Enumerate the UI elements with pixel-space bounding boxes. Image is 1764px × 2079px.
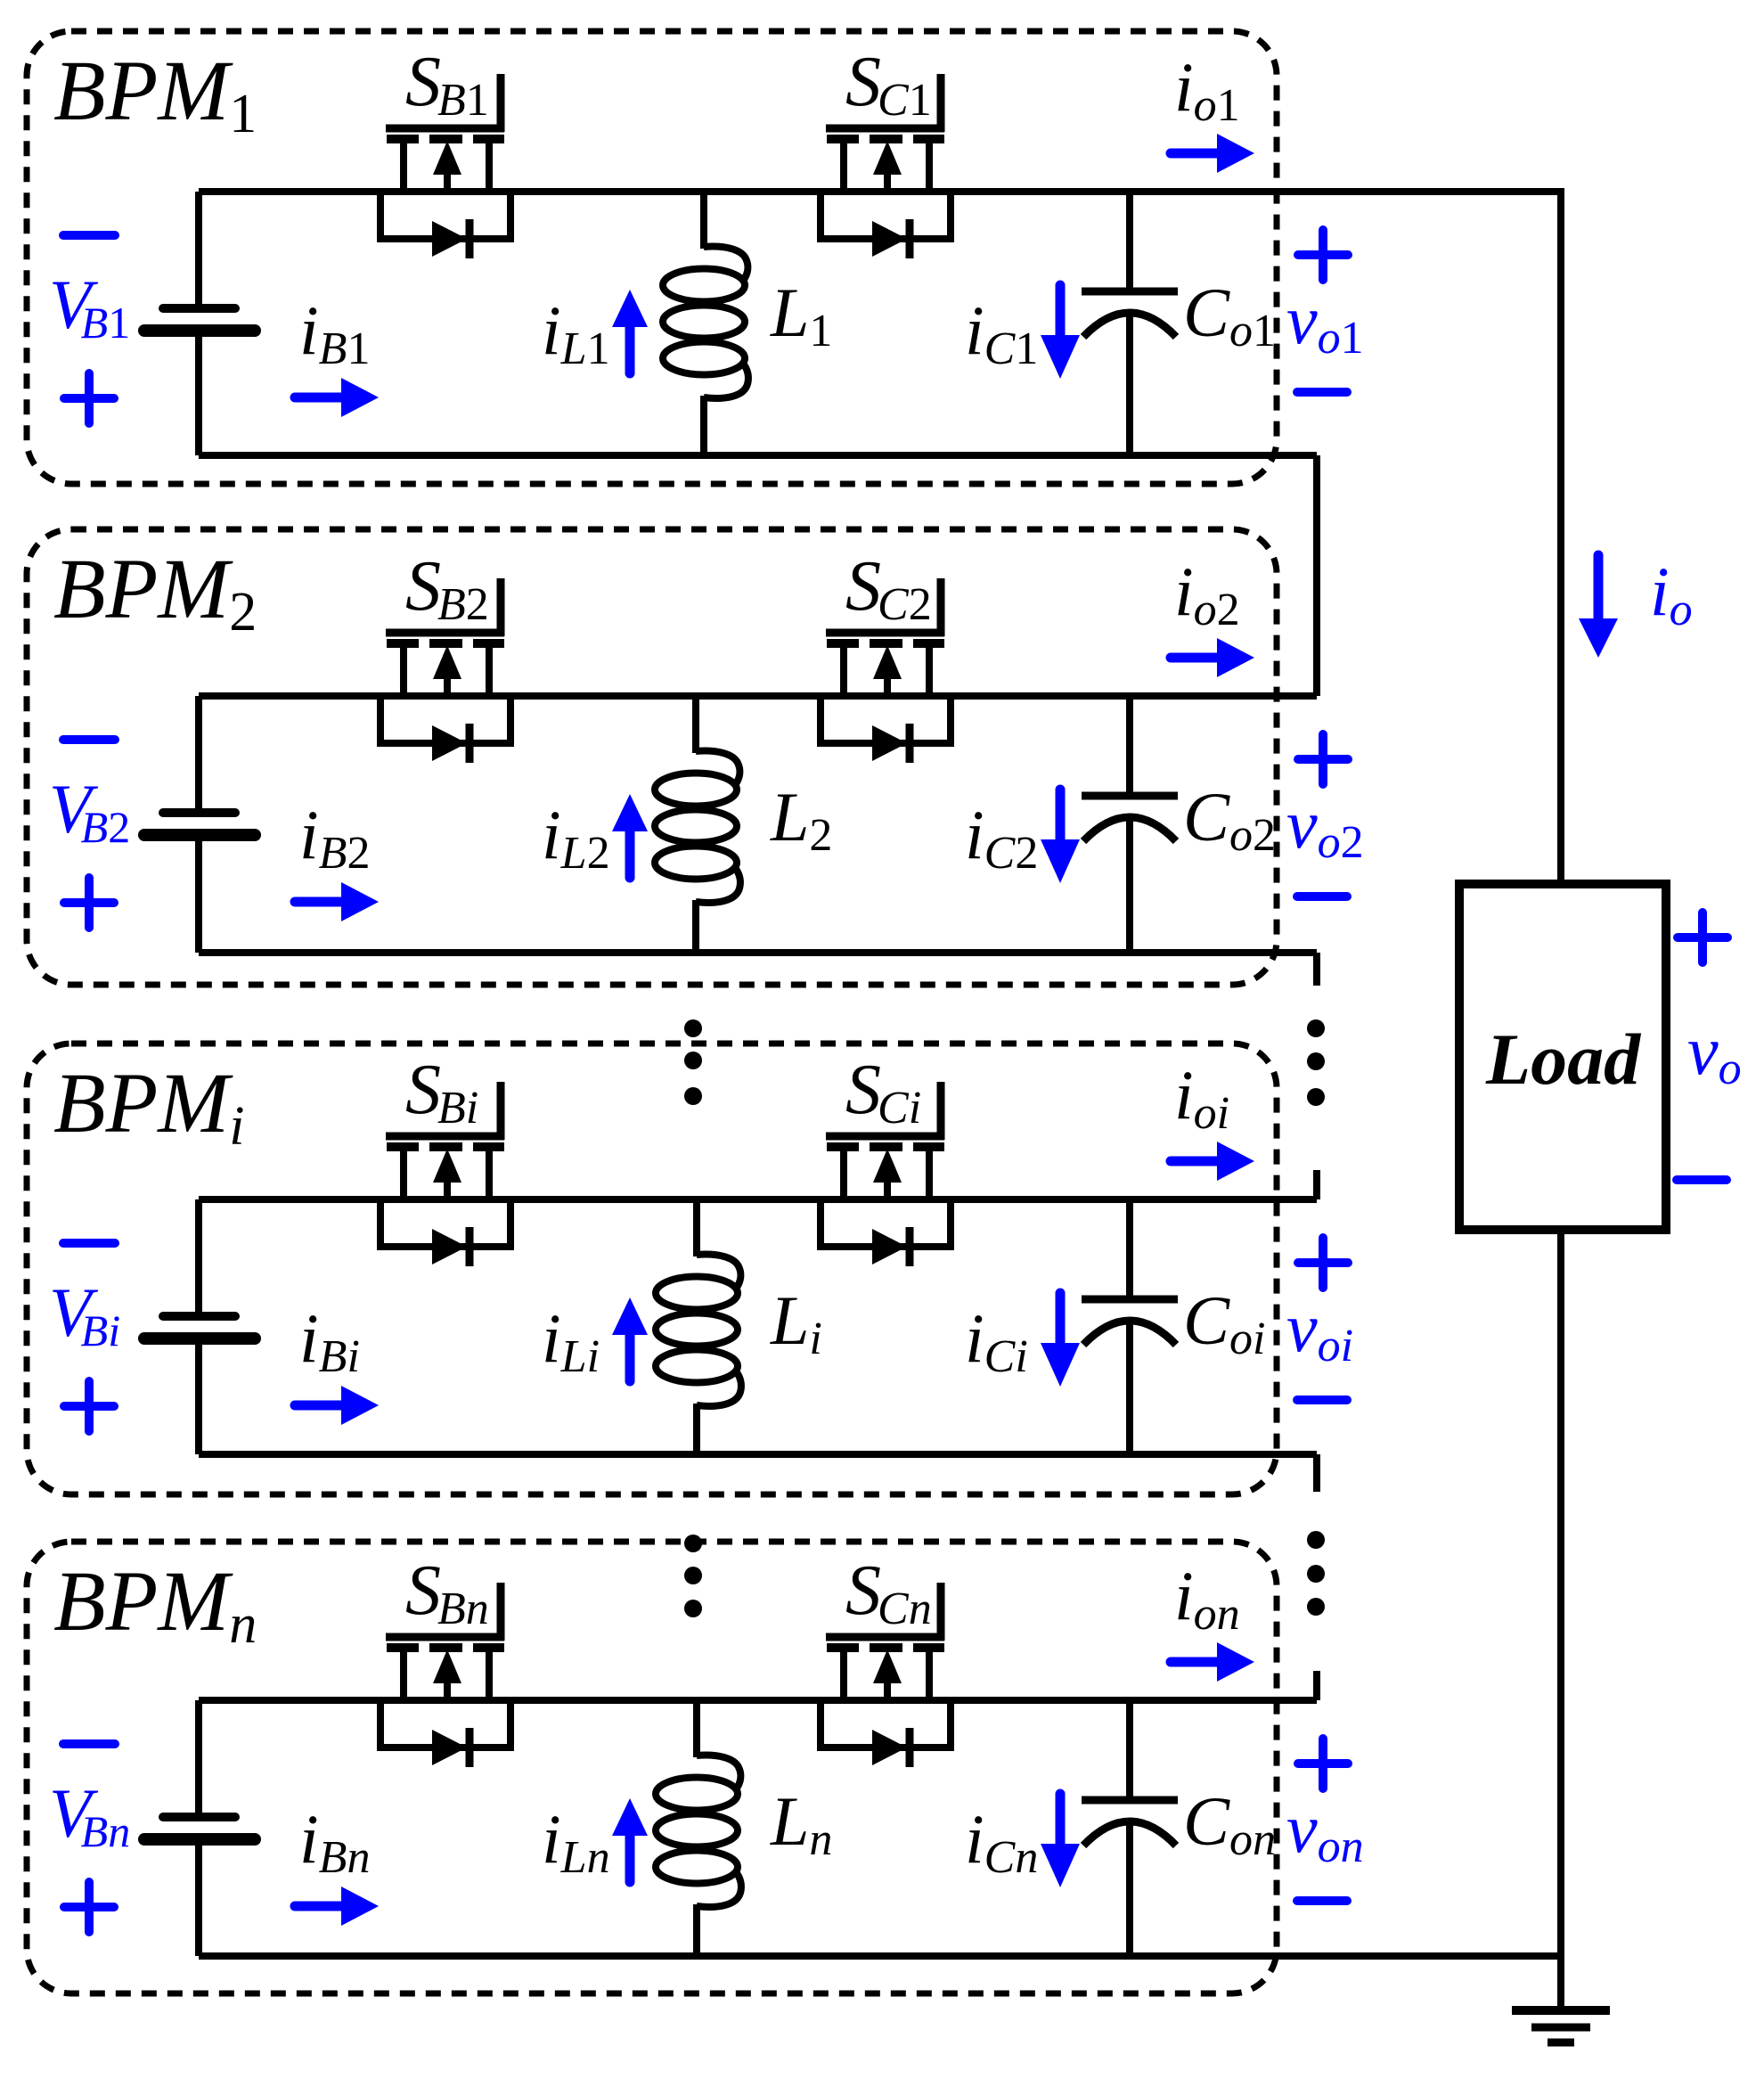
- wire: series link BPM1 bottom to BPM2 output: [1313, 455, 1320, 696]
- battery VB1: [144, 192, 255, 455]
- battery minus sign: [63, 1739, 115, 1748]
- arrow iL1 (blue, up): [612, 290, 648, 373]
- output plus sign: [1298, 1739, 1348, 1788]
- battery plus sign: [64, 878, 114, 928]
- wire: BPM2 top rail: [199, 692, 1317, 700]
- transistor SBi (MOSFET with body diode): [380, 1082, 510, 1266]
- arrow iLn (blue, up): [612, 1798, 648, 1882]
- battery minus sign: [63, 735, 115, 744]
- capacitor Con: [1082, 1700, 1178, 1956]
- arrow io1 (blue, right): [1171, 134, 1254, 173]
- arrow iBn (blue, right): [295, 1887, 379, 1926]
- capacitor Coi: [1082, 1199, 1178, 1454]
- output minus sign: [1297, 1896, 1347, 1905]
- wire: BPMn top rail: [199, 1697, 1317, 1704]
- arrow iBi (blue, right): [295, 1386, 379, 1425]
- transistor SCn (MOSFET with body diode): [821, 1583, 951, 1767]
- battery VBn: [144, 1700, 255, 1956]
- battery plus sign: [64, 1381, 114, 1431]
- transistor SB2 (MOSFET with body diode): [380, 578, 510, 763]
- inductor L1: [663, 192, 748, 455]
- output minus sign: [1297, 1396, 1347, 1404]
- wire: BPMn bottom rail: [199, 1952, 1561, 1960]
- output minus sign: [1297, 388, 1347, 397]
- battery VBi: [144, 1199, 255, 1454]
- output plus sign: [1298, 734, 1348, 784]
- wire: BPMi bottom stub down: [1313, 1454, 1320, 1492]
- wire: BPMi output stub up: [1313, 1170, 1320, 1199]
- battery plus sign: [64, 373, 114, 423]
- transistor SB1 (MOSFET with body diode): [380, 74, 510, 258]
- wire: BPM2 bottom rail: [199, 949, 1317, 956]
- transistor SCi (MOSFET with body diode): [821, 1082, 951, 1266]
- arrow iCn (blue, down): [1041, 1794, 1080, 1887]
- battery minus sign: [63, 231, 115, 240]
- module box BPM2: [27, 529, 1277, 985]
- arrow iLi (blue, up): [612, 1297, 648, 1381]
- inductor Ln: [656, 1700, 741, 1956]
- arrow iB2 (blue, right): [295, 882, 379, 921]
- arrow iL2 (blue, up): [612, 794, 648, 878]
- ellipsis dots center column (between BPM2 and BPMi): [684, 1019, 702, 1105]
- ground symbol: [1512, 2010, 1610, 2042]
- svg-text:BPM2: BPM2: [53, 541, 257, 643]
- load plus sign (blue): [1678, 913, 1727, 962]
- output plus sign: [1298, 1238, 1348, 1288]
- wire: output bus top (BPM1 output to load): [1557, 188, 1564, 884]
- arrow ioi (blue, right): [1171, 1142, 1254, 1181]
- load box: [1459, 884, 1666, 1230]
- battery plus sign: [64, 1882, 114, 1932]
- wire: BPMi bottom rail: [199, 1451, 1317, 1458]
- ellipsis dots right column (between BPM2 and BPMi): [1307, 1019, 1325, 1106]
- capacitor Co1: [1082, 192, 1178, 455]
- svg-text:BPMn: BPMn: [53, 1553, 257, 1655]
- battery VB2: [144, 696, 255, 953]
- capacitor Co2: [1082, 696, 1178, 953]
- ellipsis dots center column (between BPMi and BPMn): [684, 1535, 702, 1617]
- transistor SC2 (MOSFET with body diode): [821, 578, 951, 763]
- load minus sign (blue): [1677, 1175, 1727, 1184]
- wire: load bottom to ground: [1557, 1230, 1564, 2010]
- arrow iCi (blue, down): [1041, 1293, 1080, 1387]
- output minus sign: [1297, 892, 1347, 901]
- module box BPM1: [27, 31, 1277, 484]
- arrow io (blue, down): [1579, 555, 1618, 658]
- arrow io2 (blue, right): [1171, 638, 1254, 677]
- module box BPMi: [27, 1044, 1277, 1494]
- arrow iC1 (blue, down): [1041, 285, 1080, 379]
- svg-text:Load: Load: [1485, 1019, 1641, 1100]
- ellipsis dots right column (between BPMi and BPMn): [1307, 1531, 1325, 1616]
- transistor SBn (MOSFET with body diode): [380, 1583, 510, 1767]
- wire: BPM1 bottom rail: [199, 452, 1317, 459]
- svg-text:BPM1: BPM1: [53, 43, 257, 144]
- wire: BPM2 bottom stub down: [1313, 953, 1320, 986]
- output plus sign: [1298, 230, 1348, 280]
- arrow iC2 (blue, down): [1041, 790, 1080, 883]
- svg-text:BPMi: BPMi: [53, 1055, 244, 1157]
- arrow ion (blue, right): [1171, 1642, 1254, 1682]
- battery minus sign: [63, 1239, 115, 1248]
- wire: BPM1 top rail: [199, 188, 1561, 195]
- inductor L2: [655, 696, 740, 953]
- wire: BPMi top rail: [199, 1196, 1317, 1203]
- transistor SC1 (MOSFET with body diode): [821, 74, 951, 258]
- inductor Li: [656, 1199, 741, 1454]
- wire: BPMn output stub up: [1313, 1671, 1320, 1700]
- arrow iB1 (blue, right): [295, 378, 379, 417]
- module box BPMn: [27, 1542, 1277, 1993]
